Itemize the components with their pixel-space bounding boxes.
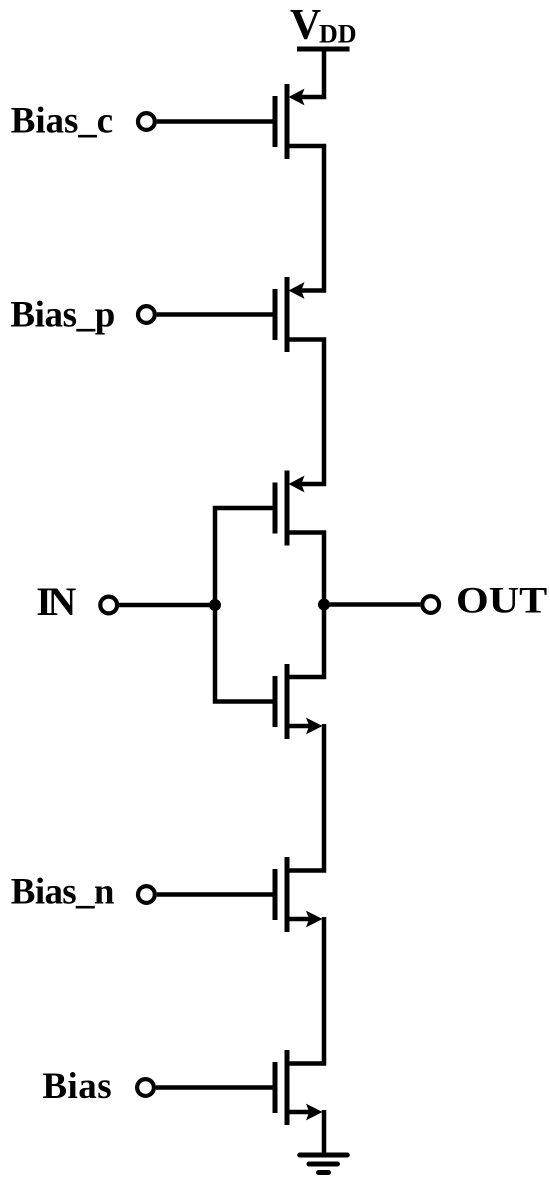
channel bar (285, 664, 290, 739)
node OUT junction (318, 599, 330, 611)
wire IN (119, 603, 215, 608)
wire M4 source to M5 drain (287, 724, 324, 871)
source arrow (289, 476, 305, 493)
svg-text:Bias_n: Bias_n (11, 872, 115, 913)
terminal OUT (422, 596, 439, 613)
gate bar (273, 483, 278, 534)
wire OUT (324, 602, 420, 607)
power VDD bar (297, 47, 350, 52)
wire Bias_p gate (157, 312, 273, 317)
source arrow (306, 911, 323, 928)
ground (300, 1155, 348, 1173)
svg-text:Bias_p: Bias_p (10, 295, 115, 336)
wire M5 source to M6 drain (287, 917, 324, 1064)
channel bar (285, 857, 290, 932)
wire Bias_c gate (157, 119, 273, 124)
source arrow (289, 282, 305, 299)
wire VDD stem to M1 source (300, 49, 324, 97)
source arrow (306, 718, 323, 735)
source arrow (306, 1104, 323, 1121)
terminal Bias (137, 1079, 154, 1096)
node VDD label (290, 2, 357, 49)
gate bar (273, 96, 278, 147)
gate bar (273, 869, 278, 920)
channel bar (285, 471, 290, 546)
transistor M4 NMOS input (275, 664, 323, 739)
gate bar (273, 1062, 278, 1113)
svg-text:DD: DD (319, 20, 357, 49)
gate bar (273, 289, 278, 340)
transistor M1 PMOS Bias_c (275, 84, 305, 159)
wire input gate rail (215, 508, 273, 702)
source lead (287, 917, 310, 922)
svg-text:OUT: OUT (456, 580, 547, 621)
wire M3 drain to OUT node to M4 drain (287, 533, 324, 678)
wire M2 drain to M3 source (287, 340, 324, 485)
wire Bias_n gate (157, 892, 273, 897)
wire Bias gate (156, 1085, 273, 1090)
transistor M2 PMOS Bias_p (275, 277, 305, 352)
terminal Bias_c (138, 113, 155, 130)
svg-text:Bias: Bias (42, 1066, 112, 1107)
terminal Bias_n (138, 886, 155, 903)
gate bar (273, 676, 278, 727)
node IN junction (209, 599, 221, 611)
transistor M5 NMOS Bias_n (275, 857, 323, 932)
svg-text:IN: IN (36, 579, 76, 624)
channel bar (285, 1050, 290, 1125)
transistor M3 PMOS input (275, 471, 305, 546)
source lead (287, 724, 310, 729)
svg-text:Bias_c: Bias_c (11, 101, 113, 142)
wire M1 drain to M2 source (287, 146, 324, 291)
terminal Bias_p (138, 306, 155, 323)
channel bar (285, 277, 290, 352)
terminal IN (100, 597, 117, 614)
transistor M6 NMOS Bias (275, 1050, 323, 1125)
channel bar (285, 84, 290, 159)
wire M6 source to ground (322, 1110, 327, 1155)
svg-text:V: V (290, 2, 321, 49)
source arrow (289, 89, 305, 106)
source lead (287, 1110, 310, 1115)
